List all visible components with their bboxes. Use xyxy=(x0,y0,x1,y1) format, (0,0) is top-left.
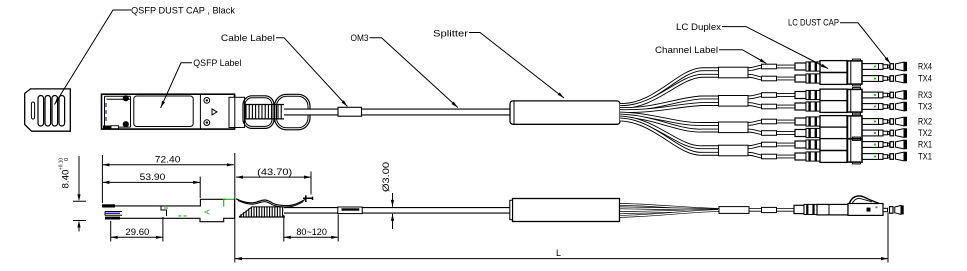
svg-text:RX2: RX2 xyxy=(918,117,932,127)
channel label sleeve row 1 xyxy=(762,64,777,69)
screw bottom-left xyxy=(123,121,129,127)
bottom-left notch rect xyxy=(111,126,119,129)
pair 4 sleeve xyxy=(719,67,749,78)
pull tab cross xyxy=(303,195,313,202)
LC side body xyxy=(817,204,848,215)
fiber side 4 xyxy=(620,211,720,217)
dimension 72.40 xyxy=(102,155,234,203)
pair 2 sleeve xyxy=(719,122,749,133)
arrowhead QSFP dust cap callout xyxy=(55,98,60,105)
arrow 80~120 left xyxy=(284,236,291,239)
dimension 29.60 xyxy=(111,217,163,242)
arrow L left xyxy=(235,257,242,260)
channel label sleeve row 8 xyxy=(762,154,777,159)
duplex clip pair 4 xyxy=(848,61,863,84)
LC side boot xyxy=(794,205,804,213)
svg-text:(43.70): (43.70) xyxy=(257,167,292,177)
channel label sleeve row 6 xyxy=(762,131,777,136)
arrowhead LC dust cap callout xyxy=(885,57,891,64)
dimension 53.90 xyxy=(102,177,200,199)
ringed screw bottom xyxy=(204,120,210,126)
LC connector RX2 xyxy=(795,116,889,128)
leader line QSFP dust cap callout xyxy=(55,10,132,105)
svg-text:QSFP Label: QSFP Label xyxy=(193,58,241,69)
corrugated boot spring xyxy=(246,105,281,119)
dust cap slot 4 xyxy=(59,96,65,127)
dimension 8.40 lines xyxy=(73,156,86,232)
fiber side 2 xyxy=(620,208,720,210)
leader line channel label callout xyxy=(719,50,767,64)
QSFP transceiver body outline xyxy=(102,94,235,129)
LC side front housing xyxy=(848,204,883,216)
fiber pair3 upper xyxy=(620,95,796,109)
svg-text:29.60: 29.60 xyxy=(125,227,149,237)
boot side wavy top xyxy=(236,199,305,206)
dimension diameter 3.00 xyxy=(392,193,394,229)
dust cap slot 3 xyxy=(52,96,58,127)
svg-text:TX2: TX2 xyxy=(918,128,932,138)
LC connector TX4 xyxy=(795,73,889,85)
pair 1 sleeve xyxy=(719,145,749,156)
green outline corner xyxy=(224,199,235,206)
leader line cable label callout xyxy=(276,38,347,107)
LC side dust cap xyxy=(890,207,894,214)
fiber side 3 xyxy=(620,210,720,212)
arrow 29.60 left xyxy=(111,236,118,239)
LC connector RX3 xyxy=(795,89,889,101)
fiber pair3 lower xyxy=(620,104,796,111)
pull-tab lobe 1 xyxy=(243,96,274,129)
LC connector TX2 xyxy=(795,127,889,139)
fiber pair1 upper xyxy=(620,118,796,148)
svg-text:8.40: 8.40 xyxy=(61,170,71,189)
LC dust cap RX1 xyxy=(890,140,907,149)
leader line QSFP label callout xyxy=(161,63,192,108)
svg-text:80~120: 80~120 xyxy=(296,227,327,237)
fiber pair2 upper xyxy=(620,114,796,125)
LC connector RX1 xyxy=(795,139,889,151)
arrow L right xyxy=(881,257,888,260)
boot clamp rect xyxy=(229,97,245,127)
arrow 8.40 top xyxy=(77,194,80,201)
leader line LC dust cap callout xyxy=(840,23,890,64)
cable side view xyxy=(284,207,513,214)
arrowhead channel label callout xyxy=(760,59,767,64)
svg-text:Cable Label: Cable Label xyxy=(221,33,275,44)
dimension 80~120 xyxy=(284,215,338,242)
dimension L xyxy=(235,153,888,263)
cable label sleeve xyxy=(338,107,362,116)
screw top-left xyxy=(123,95,129,101)
arrow dia top xyxy=(391,200,394,207)
svg-text:72.40: 72.40 xyxy=(155,155,181,165)
LC dust cap RX3 xyxy=(890,90,907,99)
arrow 43.70 left xyxy=(236,176,243,179)
pair 3 sleeve xyxy=(719,96,749,107)
blue contact side xyxy=(105,212,120,214)
arrow 53.90 left xyxy=(102,181,109,184)
svg-text:QSFP DUST CAP , Black: QSFP DUST CAP , Black xyxy=(131,6,235,17)
ringed screw top xyxy=(204,98,210,104)
LC connector RX4 xyxy=(795,61,889,73)
dust cap slot 2 xyxy=(45,96,51,127)
LC connector TX3 xyxy=(795,101,889,113)
fiber pair4 lower xyxy=(620,76,796,107)
fiber sleeve side 2 xyxy=(762,207,777,212)
arrow dia bottom xyxy=(391,214,394,221)
fiber side bundle xyxy=(718,208,796,211)
QSFP dust cap body xyxy=(25,89,71,131)
triangle marker xyxy=(212,109,217,115)
duplex clip pair 1 xyxy=(848,139,863,162)
fiber pair4 upper xyxy=(620,67,796,106)
splitter side view xyxy=(513,199,620,222)
LC side latch lever xyxy=(849,196,880,205)
arrowhead OM3 callout xyxy=(452,102,458,108)
leader line splitter callout xyxy=(469,33,564,99)
dimension (43.70) xyxy=(236,172,311,195)
QSFP side profile xyxy=(109,199,235,221)
dust cap slot 1 xyxy=(38,96,44,127)
arrowhead LC duplex callout xyxy=(821,64,828,69)
svg-text:Channel Label: Channel Label xyxy=(655,45,718,56)
leader line LC duplex callout xyxy=(722,27,828,69)
channel label sleeve row 5 xyxy=(762,119,777,124)
LC side latch section xyxy=(804,204,817,214)
arrow 43.70 right xyxy=(304,176,311,179)
side profile left end xyxy=(102,204,115,207)
leader line OM3 callout xyxy=(370,38,458,108)
fiber pair1 lower xyxy=(620,120,796,157)
LC dust cap TX3 xyxy=(890,102,907,111)
arrowhead cable label callout xyxy=(342,100,348,106)
fiber pair2 lower xyxy=(620,116,796,134)
svg-text:Ø3.00: Ø3.00 xyxy=(381,162,391,192)
cable OM3 xyxy=(284,109,512,116)
arrow 72.40 left xyxy=(102,163,109,166)
LC dust cap RX2 xyxy=(890,117,907,126)
duplex clip pair 2 xyxy=(848,116,863,139)
svg-text:53.90: 53.90 xyxy=(140,172,166,182)
LC dust cap TX1 xyxy=(890,152,907,161)
svg-text:L: L xyxy=(556,248,561,258)
svg-text:TX4: TX4 xyxy=(918,74,932,84)
bottom-left black tab xyxy=(103,126,111,129)
channel label sleeve row 7 xyxy=(762,142,777,147)
fiber sleeve side 1 xyxy=(719,207,749,214)
green tick marks xyxy=(164,208,187,216)
fiber side 1 xyxy=(620,204,720,209)
duplex clip pair 3 xyxy=(848,89,863,112)
arrow 53.90 right xyxy=(193,181,200,184)
pull-tab lobe 2 xyxy=(275,94,311,130)
boot side corrugation xyxy=(241,207,283,217)
LC dust cap RX4 xyxy=(890,62,907,71)
svg-text:OM3: OM3 xyxy=(351,33,369,44)
svg-text:RX4: RX4 xyxy=(918,62,932,72)
svg-text:RX1: RX1 xyxy=(918,140,932,150)
blue contact line xyxy=(105,103,107,124)
arrow 29.60 right xyxy=(156,236,163,239)
mid notch xyxy=(161,206,167,216)
QSFP edge connector inner rect xyxy=(105,96,131,127)
svg-text:TX3: TX3 xyxy=(918,102,932,112)
cable label side xyxy=(338,207,362,214)
arrowhead QSFP label callout xyxy=(161,101,165,108)
LC side ferrule xyxy=(883,208,888,211)
channel label sleeve row 2 xyxy=(762,76,777,81)
svg-text:TX1: TX1 xyxy=(918,152,932,162)
svg-text:0: 0 xyxy=(64,158,70,161)
dust cap small slot xyxy=(31,102,34,119)
channel label sleeve row 3 xyxy=(762,93,777,98)
channel label sleeve row 4 xyxy=(762,104,777,109)
splitter body xyxy=(510,101,620,124)
LC dust cap TX2 xyxy=(890,128,907,137)
arrow 80~120 right xyxy=(331,236,338,239)
body divider xyxy=(199,94,201,129)
arrow 72.40 right xyxy=(227,163,234,166)
QSFP label area xyxy=(134,96,193,127)
svg-text:Splitter: Splitter xyxy=(433,29,468,40)
arrow 8.40 bottom xyxy=(77,221,80,228)
LC dust cap TX4 xyxy=(890,74,907,83)
svg-text:RX3: RX3 xyxy=(918,90,932,100)
svg-text:LC Duplex: LC Duplex xyxy=(676,22,721,33)
svg-text:A: A xyxy=(203,209,212,214)
LC connector TX1 xyxy=(795,151,889,163)
arrowhead splitter callout xyxy=(558,92,564,98)
svg-text:LC DUST CAP: LC DUST CAP xyxy=(788,18,839,29)
